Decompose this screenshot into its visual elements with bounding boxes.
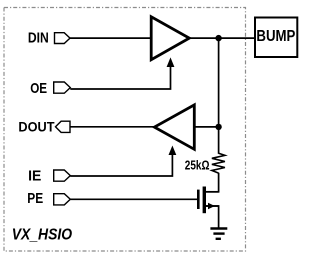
wire resistor to drain <box>206 173 219 192</box>
pin PE <box>54 194 71 205</box>
node junction at bump net top <box>215 35 221 41</box>
wire DOUT buffer input <box>194 126 219 128</box>
svg-text:DOUT: DOUT <box>18 119 54 135</box>
transistor Q1 source stub <box>204 205 218 207</box>
node junction at receiver input <box>215 124 221 130</box>
wire DIN to buffer <box>70 37 152 39</box>
svg-text:DIN: DIN <box>28 31 49 47</box>
ground <box>210 229 227 239</box>
wire DOUT buffer output to pin <box>56 126 155 128</box>
svg-text:BUMP: BUMP <box>256 28 295 45</box>
wire buffer output to BUMP <box>190 37 256 39</box>
wire OE to enable arrow <box>70 66 170 89</box>
VX_HSIO boundary (dashed box) <box>4 8 246 252</box>
svg-text:IE: IE <box>28 168 41 184</box>
pin DIN <box>55 33 71 44</box>
wire vertical bump net <box>218 38 220 154</box>
transistor Q1 channel bar <box>203 187 206 214</box>
svg-text:25kΩ: 25kΩ <box>185 157 210 172</box>
BUMP box <box>255 18 297 58</box>
svg-text:OE: OE <box>30 81 47 97</box>
wire IE to enable arrow <box>70 154 172 176</box>
pin OE <box>54 82 71 93</box>
wire PE to gate <box>70 198 197 200</box>
wire source to ground <box>206 206 219 228</box>
resistor R1 25k zigzag <box>212 153 225 173</box>
svg-text:PE: PE <box>27 191 43 207</box>
op-amp U2 input buffer (DOUT receiver) <box>154 105 194 149</box>
pin IE <box>54 170 71 181</box>
svg-text:VX_HSIO: VX_HSIO <box>12 226 73 243</box>
pin DOUT (points left) <box>56 121 71 132</box>
OE enable arrowhead <box>167 57 175 67</box>
transistor Q1 drain stub <box>204 191 218 193</box>
op-amp U1 output buffer (DIN driver) <box>151 17 189 60</box>
IE enable arrowhead <box>169 146 177 156</box>
transistor Q1 source arrow <box>208 203 215 210</box>
transistor Q1 gate bar <box>197 190 200 209</box>
